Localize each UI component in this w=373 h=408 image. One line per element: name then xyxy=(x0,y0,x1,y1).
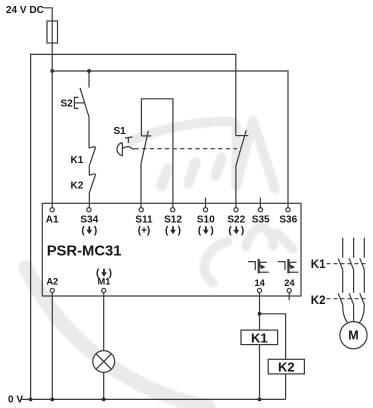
svg-text:): ) xyxy=(241,226,244,237)
svg-text:S2: S2 xyxy=(61,99,74,110)
terminal M1 xyxy=(96,268,112,293)
wire S22 channel return to 0V rail xyxy=(31,54,236,399)
contact S1 channel 2 (NC) to S22 xyxy=(236,130,249,207)
svg-text:S11: S11 xyxy=(135,215,153,226)
wire K1 to K2 contact xyxy=(88,166,90,176)
pushbutton S2 xyxy=(61,71,90,117)
terminal S22 xyxy=(227,208,245,237)
emergency stop S1 actuator xyxy=(114,126,135,156)
junction 0V rail at A2 xyxy=(50,398,54,402)
semiconductor output symbol at 14 xyxy=(248,259,269,273)
wire S12 loop over S1 contact xyxy=(141,99,173,208)
wire 24VDC supply to fuse and down to junction xyxy=(44,8,53,71)
wire terminal 14 to coil branch junction xyxy=(259,293,261,331)
wire A2 to 0V rail xyxy=(51,293,53,400)
contactor K1 main contacts xyxy=(311,258,367,271)
contact S1 channel 1 (NC) between S11 and S12 xyxy=(141,131,151,208)
terminal S35 xyxy=(252,208,270,226)
motor M xyxy=(340,322,367,349)
svg-text:M: M xyxy=(348,329,358,343)
fuse F1 xyxy=(47,21,58,43)
svg-text:24 V DC: 24 V DC xyxy=(6,5,44,16)
svg-text:K1: K1 xyxy=(71,155,84,166)
terminal A1 xyxy=(46,208,59,226)
wire supply bus from junction to S36 terminal xyxy=(52,71,288,208)
stub terminal S10 xyxy=(205,198,207,208)
svg-text:): ) xyxy=(109,268,112,279)
wire K2 contact to terminal S34 xyxy=(88,193,90,208)
terminal S10 xyxy=(197,208,215,237)
svg-text:S34: S34 xyxy=(80,215,98,226)
svg-text:S12: S12 xyxy=(164,215,182,226)
wire lamp to 0V rail xyxy=(103,372,105,399)
svg-text:(: ( xyxy=(228,226,232,237)
svg-text:S22: S22 xyxy=(227,215,245,226)
semiconductor output symbol at 24 xyxy=(278,259,299,273)
svg-text:S36: S36 xyxy=(279,215,297,226)
stub terminal S35 xyxy=(259,198,261,208)
contactor coil K1 xyxy=(241,330,278,399)
svg-text:A1: A1 xyxy=(46,215,59,226)
svg-text:S1: S1 xyxy=(114,126,127,137)
svg-text:(: ( xyxy=(81,226,85,237)
svg-text:(: ( xyxy=(198,226,202,237)
svg-text:): ) xyxy=(94,226,97,237)
wire M1 to lamp xyxy=(103,293,105,351)
junction supply bus at A1 column xyxy=(50,69,54,73)
junction supply bus at S2 branch xyxy=(87,69,91,73)
wires K2 contacts to motor xyxy=(343,305,365,323)
mechanical linkage dashed line xyxy=(135,148,238,150)
stub terminal 24 xyxy=(288,293,290,301)
indicator lamp P1 xyxy=(93,351,115,373)
svg-text:(+): (+) xyxy=(138,226,151,237)
terminal S34 xyxy=(80,208,98,237)
relay unit PSR-MC31 box xyxy=(42,203,301,296)
svg-text:K2: K2 xyxy=(71,181,84,192)
svg-text:S35: S35 xyxy=(252,215,270,226)
svg-text:): ) xyxy=(178,226,181,237)
svg-text:(: ( xyxy=(165,226,169,237)
svg-text:K2: K2 xyxy=(278,360,295,375)
terminal A2 xyxy=(46,277,58,293)
junction coil branch xyxy=(258,312,262,316)
svg-text:A2: A2 xyxy=(46,277,58,287)
terminal 24 xyxy=(284,278,295,293)
contact K1 (aux, NO) xyxy=(71,147,96,166)
svg-text:PSR-MC31: PSR-MC31 xyxy=(47,243,122,259)
junction 0V rail at lamp xyxy=(102,398,106,402)
svg-text:14: 14 xyxy=(255,278,266,288)
junction K1 coil at 0V rail xyxy=(258,398,262,402)
three phase feeder stubs xyxy=(343,238,365,258)
svg-text:): ) xyxy=(210,226,213,237)
svg-text:S10: S10 xyxy=(197,215,215,226)
terminal S11 xyxy=(135,208,153,237)
junction 0V rail at left return xyxy=(29,398,33,402)
svg-text:24: 24 xyxy=(284,278,295,288)
svg-text:K1: K1 xyxy=(251,330,268,345)
svg-text:K2: K2 xyxy=(311,295,326,307)
svg-text:K1: K1 xyxy=(311,259,326,271)
contact K2 (aux, NO) xyxy=(71,174,96,193)
contactor K2 main contacts xyxy=(311,293,367,307)
terminal S36 xyxy=(279,208,297,226)
wires between K1 and K2 main contacts xyxy=(343,270,365,293)
wire A1 column from junction down to terminal A1 xyxy=(51,71,53,208)
contactor coil K2 xyxy=(268,359,304,399)
terminal 14 xyxy=(255,278,266,293)
wire branch to K2 coil xyxy=(260,314,286,360)
terminal S12 xyxy=(164,208,182,237)
wire S2 to K1 contact xyxy=(88,117,90,148)
net 0V rail xyxy=(8,394,286,405)
